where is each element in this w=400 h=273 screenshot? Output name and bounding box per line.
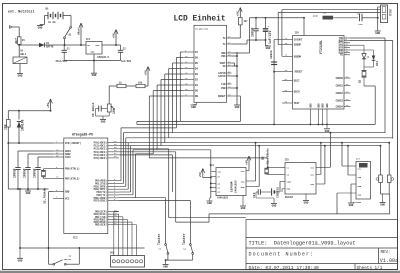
IC6 right uart pins xyxy=(344,37,350,39)
capacitor C3 xyxy=(17,167,19,169)
svg-text:GND: GND xyxy=(65,191,70,194)
svg-text:32,768kHz: 32,768kHz xyxy=(265,148,269,165)
resistor R6 xyxy=(239,17,243,25)
lcd data wire 6 xyxy=(157,84,183,86)
svg-text:+5V: +5V xyxy=(47,103,50,108)
svg-text:Q2: Q2 xyxy=(261,156,265,160)
wire R3 left xyxy=(109,85,117,87)
svg-text:SV1: SV1 xyxy=(110,252,115,255)
svg-text:LM2936-5: LM2936-5 xyxy=(97,56,110,59)
svg-text:IC2: IC2 xyxy=(73,237,78,240)
svg-text:GND: GND xyxy=(380,204,385,207)
battery gnd wire xyxy=(255,192,257,198)
capacitor C9 polarized xyxy=(265,18,267,29)
lcd bottom left gnd xyxy=(196,102,198,104)
usb connector X2 xyxy=(381,5,388,23)
svg-text:GND: GND xyxy=(191,106,196,109)
svg-text:Sheets 1/1: Sheets 1/1 xyxy=(357,266,383,271)
svg-text:+5V: +5V xyxy=(199,172,202,177)
wire P1 to gnd xyxy=(108,112,110,116)
ground GND2 xyxy=(17,73,23,75)
resistor R2 xyxy=(7,111,9,120)
pullup bottom rail xyxy=(381,193,390,195)
IC7 vdd wire xyxy=(348,174,356,176)
wire switch to node xyxy=(64,39,66,45)
eeprom gnd pin wire xyxy=(242,196,244,206)
rtc gnd xyxy=(282,188,285,190)
svg-text:GND: GND xyxy=(241,207,246,210)
svg-text:+5V: +5V xyxy=(245,160,248,165)
ground GND16 xyxy=(348,202,354,204)
svg-text:GND: GND xyxy=(26,192,31,195)
svg-text:GND: GND xyxy=(38,27,43,30)
svg-text:C1B: C1B xyxy=(221,83,226,86)
svg-text:Taster: Taster xyxy=(64,258,73,261)
bottom bus y217.7 xyxy=(169,217,246,219)
uart txd riser xyxy=(350,37,385,39)
svg-text:/RESET: /RESET xyxy=(294,71,303,74)
svg-text:+5V: +5V xyxy=(237,11,240,16)
wire R1 top xyxy=(18,27,20,37)
ground GND15 xyxy=(303,200,309,202)
svg-text:CBUS3: CBUS3 xyxy=(336,99,344,102)
supply +5V 4 xyxy=(146,67,148,71)
svg-text:4k7: 4k7 xyxy=(15,38,19,44)
svg-text:GND: GND xyxy=(304,202,309,205)
svg-text:24AA1025: 24AA1025 xyxy=(217,197,229,200)
svg-text:24AA1025: 24AA1025 xyxy=(235,180,238,193)
supply +Batt 1 xyxy=(79,23,81,27)
wire IC2 gnd down xyxy=(49,191,54,193)
svg-text:PB7(XTAL2): PB7(XTAL2) xyxy=(65,177,80,180)
svg-text:S1: S1 xyxy=(69,34,73,37)
wire regulator out xyxy=(102,44,121,46)
svg-text:Taster: Taster xyxy=(182,233,186,245)
wires mcu to header xyxy=(114,211,119,213)
diode D5 xyxy=(362,54,366,59)
rtc right wires xyxy=(316,166,331,168)
wire caps to gnd xyxy=(265,40,267,46)
svg-text:IC3: IC3 xyxy=(210,164,215,167)
ft232 gnd drop xyxy=(326,124,328,128)
svg-text:GND: GND xyxy=(322,103,325,108)
long GND net wire left side xyxy=(19,189,21,248)
wire IC2 gnd vertical to bottom rail xyxy=(48,192,50,265)
title block frame xyxy=(246,220,398,270)
wire lcd pin T3 xyxy=(232,43,248,45)
svg-text:GND: GND xyxy=(92,74,97,77)
lcd data wire 8 xyxy=(149,95,183,97)
svg-text:100nF: 100nF xyxy=(269,50,273,59)
uart rxd riser xyxy=(350,39,393,41)
svg-text:PD7(AIN1): PD7(AIN1) xyxy=(94,200,108,203)
reset wire to IC2 xyxy=(7,127,9,143)
wire R6 to lcd pin xyxy=(239,25,241,38)
bus y149.8 to eeprom xyxy=(157,149,211,151)
resistor R8 xyxy=(379,175,383,183)
svg-text:REL1: REL1 xyxy=(21,53,27,56)
capacitor C12 xyxy=(256,191,258,193)
programming header SV1 xyxy=(111,256,145,267)
IC7 scl wire xyxy=(342,165,356,167)
svg-text:VBAT: VBAT xyxy=(287,181,293,184)
voltage regulator IC1 xyxy=(86,42,102,55)
capacitor C1 xyxy=(63,45,65,50)
svg-text:GND: GND xyxy=(325,130,330,133)
svg-text:10k: 10k xyxy=(4,124,8,130)
svg-text:Q3: Q3 xyxy=(359,79,362,83)
svg-text:Taster: Taster xyxy=(157,233,161,245)
connector X1 pad xyxy=(10,26,13,28)
capacitor C2 xyxy=(120,45,122,50)
svg-text:REV:: REV: xyxy=(381,251,391,255)
pullup resistor R9 xyxy=(388,143,390,175)
eeprom sda riser xyxy=(246,186,259,188)
svg-text:IC6: IC6 xyxy=(295,32,300,35)
svg-text:GND: GND xyxy=(309,103,312,108)
pullup resistor R8 xyxy=(380,146,382,175)
svg-text:ATmega88-PU: ATmega88-PU xyxy=(72,132,93,136)
wire reset rail to gnd rail xyxy=(7,143,9,189)
+5V rail over caps xyxy=(250,17,305,19)
svg-text:+Batt: +Batt xyxy=(77,27,80,35)
svg-text:IC5: IC5 xyxy=(285,159,290,162)
ground below eeprom xyxy=(210,197,211,199)
scl bus y142.7 xyxy=(119,142,389,144)
wire battery left lead xyxy=(45,15,49,17)
supply +5V 1 xyxy=(114,30,116,34)
diode D1 xyxy=(39,43,45,48)
long bottom bus y213.9 xyxy=(176,221,209,223)
resistor R1 xyxy=(17,37,21,45)
svg-text:100nF: 100nF xyxy=(23,168,27,178)
watch crystal Q1 xyxy=(44,168,54,170)
buttons wires xyxy=(119,197,166,199)
svg-text:C6 100nF: C6 100nF xyxy=(91,102,95,117)
ground GND1 xyxy=(37,25,43,27)
svg-text:PSB: PSB xyxy=(221,87,226,90)
IC2 left pins xyxy=(53,142,64,144)
trimmer P1 xyxy=(107,104,111,112)
svg-text:32,768kHz: 32,768kHz xyxy=(42,187,46,204)
svg-text:GND: GND xyxy=(349,204,354,207)
capacitor C8 xyxy=(255,18,257,29)
svg-text:+5V: +5V xyxy=(144,70,147,75)
svg-text:22uH: 22uH xyxy=(313,15,319,18)
svg-text:GND: GND xyxy=(207,202,212,205)
vcc top wire xyxy=(303,17,305,19)
svg-text:CBUS2: CBUS2 xyxy=(336,92,344,95)
battery B1 xyxy=(47,12,49,19)
lcd psb wire xyxy=(232,87,238,89)
svg-text:EEPROM: EEPROM xyxy=(231,181,234,192)
supply +5V 6 xyxy=(201,169,203,173)
svg-text:OSCO: OSCO xyxy=(294,90,300,93)
cluster wires xyxy=(364,66,374,68)
lcd vss collector wire xyxy=(232,55,238,57)
crystal Q3 xyxy=(362,70,367,72)
lcd module U2 box xyxy=(194,25,227,102)
ground GND7 xyxy=(234,104,240,106)
wire battery right lead xyxy=(63,15,71,17)
svg-text:FT232RL: FT232RL xyxy=(319,40,323,54)
crystal x2 wire xyxy=(266,173,268,176)
caps bottom rail xyxy=(247,39,266,41)
lcd cap pins loop xyxy=(232,62,235,64)
svg-text:1N4148: 1N4148 xyxy=(21,119,25,131)
relay K1 xyxy=(13,57,27,64)
lcd left pins xyxy=(183,51,194,53)
pc4 wire down xyxy=(119,154,173,156)
ground GND18 xyxy=(324,128,330,130)
vbat wire xyxy=(279,181,281,192)
svg-text:PC6(/RESET): PC6(/RESET) xyxy=(65,142,82,145)
svg-text:evt. Netzteil: evt. Netzteil xyxy=(8,10,34,15)
ground below caps xyxy=(27,189,29,191)
svg-text:CBUS4: CBUS4 xyxy=(336,105,344,108)
svg-text:100nF: 100nF xyxy=(251,27,255,37)
capacitor C7 xyxy=(271,61,277,63)
ground GND4 xyxy=(25,190,31,192)
AVCC wires xyxy=(18,150,53,152)
lcd data wire 4 xyxy=(165,73,184,75)
lcd reset loop wire xyxy=(180,51,183,53)
svg-text:CR2032: CR2032 xyxy=(276,187,280,198)
wire c10 to gnd xyxy=(377,18,379,31)
svg-text:3V3OUT: 3V3OUT xyxy=(294,38,303,41)
supply +5V 3 xyxy=(238,8,240,12)
svg-text:1uF/16V: 1uF/16V xyxy=(268,31,272,44)
svg-text:PB6(XTAL1): PB6(XTAL1) xyxy=(65,168,80,171)
svg-text:100nF: 100nF xyxy=(33,168,37,178)
svg-text:10k: 10k xyxy=(138,82,143,85)
ground GND6 xyxy=(191,104,197,106)
wire between R3 R4 xyxy=(126,85,136,87)
wire cts to diode xyxy=(350,44,364,46)
resistor R3 xyxy=(117,84,126,87)
svg-text:B1: B1 xyxy=(46,8,50,11)
resistor R9 xyxy=(387,175,391,183)
svg-text:R21: R21 xyxy=(376,61,379,66)
bottom rail of regulator xyxy=(64,60,120,62)
wire dsr to led xyxy=(350,49,374,51)
svg-text:USB: USB xyxy=(390,8,394,16)
IC6 cbus pins xyxy=(344,77,351,79)
ground GND17 xyxy=(380,202,386,204)
usb dm wire xyxy=(282,9,381,11)
IC7 gnd wire xyxy=(351,183,356,185)
svg-text:Document Number:: Document Number: xyxy=(249,252,315,258)
svg-text:V1.00a: V1.00a xyxy=(380,258,398,264)
svg-text:GND: GND xyxy=(272,205,277,208)
diode D2 xyxy=(18,111,20,120)
ground GND12 xyxy=(207,200,213,202)
wire regulator gnd xyxy=(93,54,95,73)
ground GND3 xyxy=(91,72,97,74)
svg-text:RESET: RESET xyxy=(218,95,226,98)
svg-text:GND: GND xyxy=(317,103,320,108)
lcd vdd wire xyxy=(232,52,250,54)
svg-text:GND: GND xyxy=(326,103,329,108)
supply +5V 5 xyxy=(247,156,249,160)
svg-text:100nF: 100nF xyxy=(13,168,17,178)
lcd right pins xyxy=(227,37,232,39)
lcd data wire 1 xyxy=(176,57,183,59)
main +Batt wire xyxy=(19,44,39,46)
led D6 xyxy=(372,56,376,61)
svg-text:CAP1P: CAP1P xyxy=(218,75,226,78)
IC6 left pins xyxy=(282,39,293,41)
gnd bus y124 xyxy=(137,123,375,125)
svg-text:GND: GND xyxy=(18,259,23,262)
svg-text:C12: C12 xyxy=(252,192,256,198)
lcd cap1p wire xyxy=(232,75,238,77)
svg-text:C10: C10 xyxy=(359,23,364,26)
svg-text:IC7: IC7 xyxy=(356,158,361,161)
svg-text:GND: GND xyxy=(375,32,380,35)
lcd data wire 7 xyxy=(153,90,183,92)
resistor R2 xyxy=(7,120,11,128)
wire relay to ground xyxy=(19,64,21,74)
bottom left gnd rail xyxy=(20,247,145,249)
lcd data wire 3 / rxd bus xyxy=(169,68,184,70)
eeprom scl riser xyxy=(246,180,256,182)
svg-text:CBUS0: CBUS0 xyxy=(336,77,344,80)
pc5 wire y157.9 xyxy=(149,157,267,159)
svg-text:HT1380: HT1380 xyxy=(353,201,362,204)
gnd rail below caps xyxy=(8,188,48,190)
supply +5V 2 xyxy=(49,99,51,103)
ground GND19 xyxy=(375,30,381,32)
svg-text:4k7: 4k7 xyxy=(244,20,249,23)
ground GND5 xyxy=(265,45,271,47)
svg-text:LCD Einheit: LCD Einheit xyxy=(174,15,226,24)
capacitor C5 xyxy=(37,167,39,169)
svg-text:CBUS1: CBUS1 xyxy=(336,84,344,87)
IC7 sda wire xyxy=(337,192,356,194)
capacitor C6 xyxy=(98,106,100,112)
sda bus y145.7 xyxy=(119,145,381,147)
svg-text:PC5(ADC5): PC5(ADC5) xyxy=(94,157,108,160)
svg-text:EA DOG-M162: EA DOG-M162 xyxy=(196,28,209,31)
svg-text:GND: GND xyxy=(101,121,106,124)
reset tie wire xyxy=(274,71,282,73)
bottom page edge bar xyxy=(0,271,400,273)
switch S1 xyxy=(70,26,72,28)
backup battery B2 xyxy=(271,188,273,195)
svg-text:DS1307: DS1307 xyxy=(285,196,294,199)
svg-text:TITLE: Datenlogger01a_V099_la: TITLE: Datenlogger01a_V099_layout xyxy=(249,240,356,246)
svg-text:GND: GND xyxy=(235,106,240,109)
lcd data wire 5 xyxy=(161,79,183,81)
svg-text:PB5(SCK): PB5(SCK) xyxy=(95,224,107,227)
svg-text:AVCC: AVCC xyxy=(65,156,71,159)
svg-text:GND: GND xyxy=(91,51,96,54)
capacitor C4 xyxy=(27,167,29,169)
svg-text:OUT: OUT xyxy=(96,44,101,47)
svg-text:GND: GND xyxy=(18,75,23,78)
usb vbus wire xyxy=(378,6,381,8)
pc3 wire down xyxy=(119,151,176,153)
ground GND8 xyxy=(100,119,106,121)
svg-text:+5V: +5V xyxy=(112,33,115,38)
usb dp wire xyxy=(278,11,380,13)
3v3out wire down xyxy=(274,39,282,41)
ground GND9 xyxy=(163,264,169,266)
svg-text:1uF/50V: 1uF/50V xyxy=(121,60,132,63)
ground GND14 xyxy=(271,203,277,205)
pc2 wire down xyxy=(119,148,169,150)
ground GND11 xyxy=(17,257,23,259)
svg-text:TEST: TEST xyxy=(294,102,300,105)
IC6 bottom gnd pins xyxy=(309,109,311,124)
svg-text:VCC: VCC xyxy=(65,197,70,200)
svg-text:10k: 10k xyxy=(112,108,116,114)
IC2 right pins xyxy=(108,142,119,144)
svg-text:BAT48: BAT48 xyxy=(46,45,54,48)
svg-text:IC1: IC1 xyxy=(86,38,91,41)
lcd data wire 2 / txd bus xyxy=(173,62,184,64)
ground GND13 xyxy=(240,205,246,207)
wire R1 bottom to relay xyxy=(18,44,20,57)
svg-text:OSCI: OSCI xyxy=(294,79,300,82)
svg-text:GND: GND xyxy=(266,47,271,50)
svg-text:Date: 03.07.2011 17:30:40: Date: 03.07.2011 17:30:40 xyxy=(249,265,320,271)
crystal x1 wire xyxy=(266,167,268,168)
resistor R4 xyxy=(136,84,145,87)
svg-text:USBDP: USBDP xyxy=(294,44,302,47)
svg-text:USBDM: USBDM xyxy=(294,55,302,58)
rtc gnd symbol xyxy=(305,194,307,200)
svg-text:4x AA: 4x AA xyxy=(48,21,56,24)
reset top rail xyxy=(8,110,50,112)
svg-text:VSS: VSS xyxy=(221,55,226,58)
svg-text:GND: GND xyxy=(163,266,168,269)
eeprom left rail xyxy=(210,150,212,198)
svg-text:1nF: 1nF xyxy=(357,13,362,16)
buttons gnd rail xyxy=(166,259,193,261)
